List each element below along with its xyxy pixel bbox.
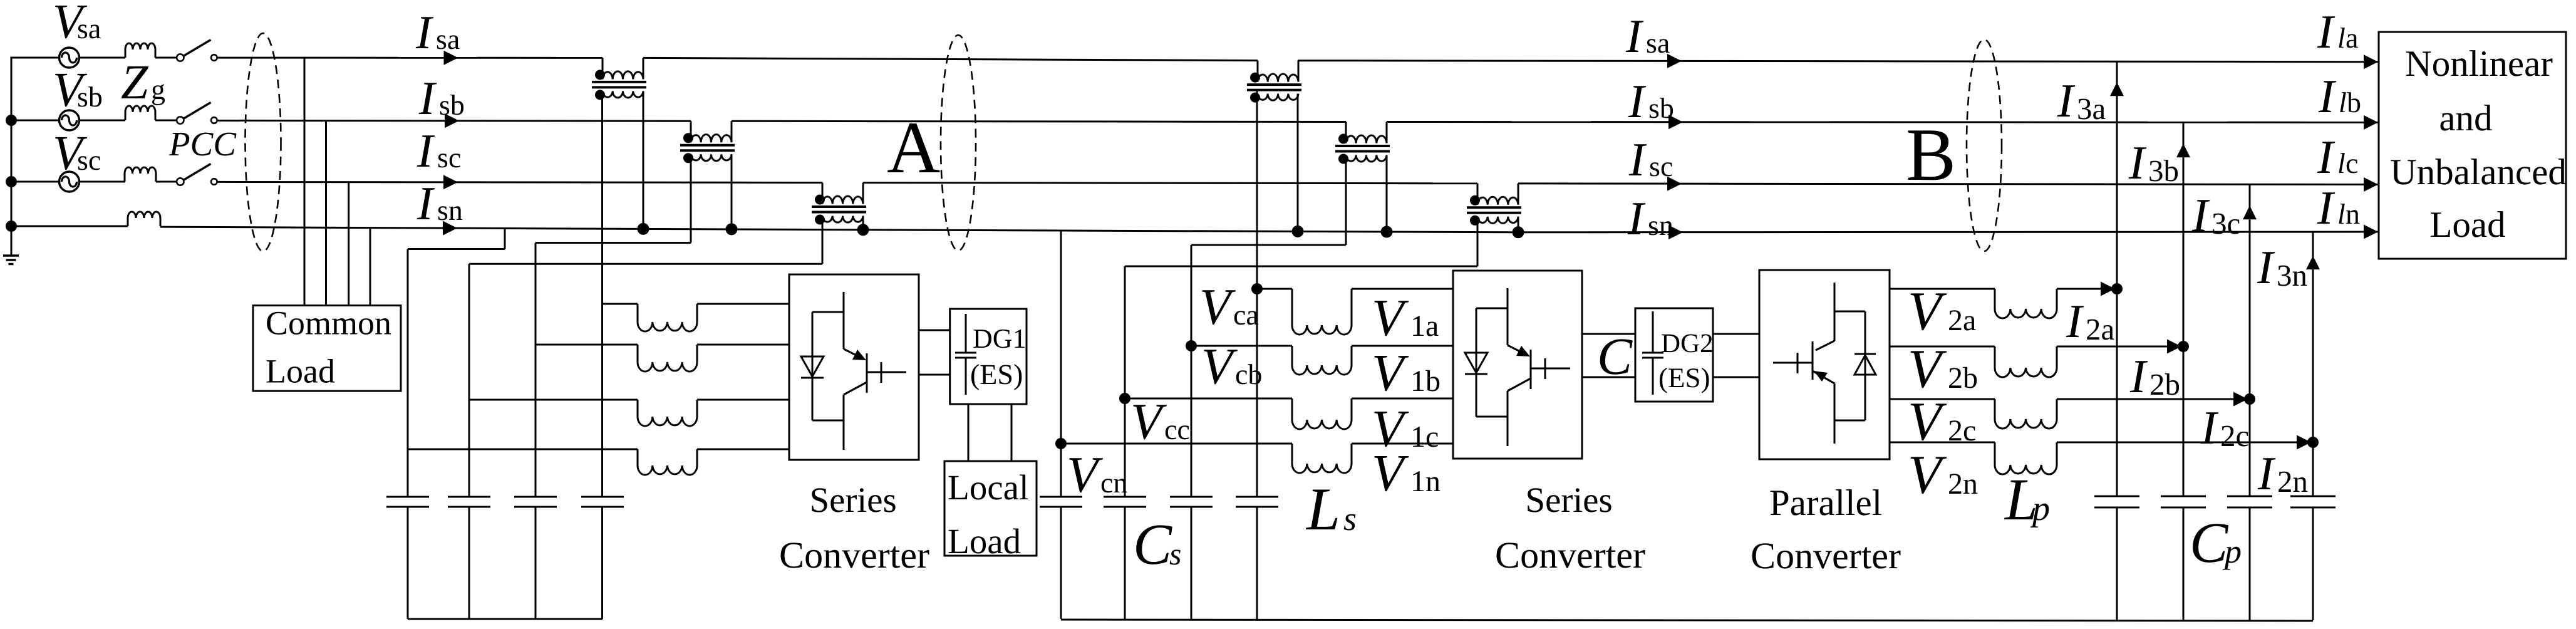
inductor filter-n	[638, 449, 697, 475]
label Isb 2	[1628, 86, 1673, 118]
wire filter neutral to inductor	[408, 449, 638, 450]
wire DG2 to parallel converter -	[1713, 377, 1759, 378]
label I3b	[2129, 147, 2178, 181]
wire filter bottom rail	[408, 618, 603, 620]
wire phase-c to load	[1518, 184, 2378, 185]
wire T2b secondary-right to neutral	[1386, 155, 1388, 232]
label Series Converter 1	[781, 488, 929, 568]
wire filter phase-b to inductor	[535, 344, 638, 346]
label I2b	[2130, 361, 2179, 395]
inductor Lp-n	[1995, 442, 2057, 474]
label I2a	[2066, 306, 2114, 340]
wire DG1 to Local Load left	[968, 404, 970, 461]
label V2n	[1911, 457, 1978, 494]
wire series-conv2 output- to DG2	[1582, 377, 1635, 378]
inductor Lp-b	[1995, 346, 2057, 377]
label Cp	[2193, 524, 2240, 569]
wire I3c vertical	[2249, 184, 2251, 620]
label Ls	[1306, 490, 1356, 531]
arrow I3b	[2176, 143, 2190, 157]
node T2c-neutral junction	[1513, 226, 1524, 238]
transformer T2a	[1247, 61, 1301, 103]
inductor Zg neutral	[128, 212, 160, 226]
label V1a	[1374, 301, 1438, 336]
node Vcb junction	[1186, 340, 1197, 351]
wire DG2 to parallel converter +	[1713, 333, 1759, 335]
wire phase-a to switch	[155, 57, 177, 59]
wire I3n vertical	[2312, 232, 2314, 620]
wire T2c secondary-left step	[1125, 217, 1477, 266]
wire Lp-c to node	[2057, 398, 2235, 400]
node I2c junction	[2244, 393, 2255, 405]
label Lp	[2004, 481, 2049, 528]
wire main bottom rail	[1061, 620, 2313, 621]
label V2c	[1911, 403, 1975, 440]
switch phase-c	[177, 164, 217, 185]
node Vcn junction	[1055, 438, 1067, 449]
label Ila	[2317, 16, 2358, 48]
wire Ls-a to series converter 2	[1352, 288, 1453, 290]
label Isa 2	[1626, 21, 1670, 53]
wire T1c secondary-right to neutral	[862, 216, 864, 230]
label Vsc	[55, 137, 100, 170]
label V2a	[1911, 293, 1976, 330]
inductor filter-c	[638, 400, 697, 426]
arrow I2c	[2233, 392, 2248, 407]
label I2n	[2258, 458, 2308, 492]
arrow Isa	[444, 51, 458, 65]
wire T1a secondary-right to neutral	[643, 91, 644, 229]
inductor Ls-c	[1292, 398, 1352, 429]
label Ilc	[2317, 142, 2357, 173]
inductor Ls-n	[1292, 444, 1352, 473]
node left-bus phase-c junction	[6, 176, 17, 187]
node T2b-neutral junction	[1381, 226, 1393, 238]
node T1a-neutral junction	[638, 223, 649, 235]
label Isn	[417, 188, 463, 220]
wire filter phase-a to inductor	[603, 303, 638, 305]
inductor Lp-a	[1995, 289, 2057, 318]
IGBT+diode series converter 1	[801, 292, 906, 450]
inductor Zg phase-b	[125, 106, 155, 120]
label Series Converter 2	[1497, 488, 1645, 568]
capacitor Cp-a	[2094, 496, 2139, 507]
parallel converter box	[1759, 270, 1890, 459]
wire tap neutral to Common Load	[370, 228, 371, 306]
ground	[3, 226, 19, 264]
wire neutral to load	[1518, 231, 2378, 234]
wire inductor-c to series converter	[697, 399, 789, 401]
wire Vcb vertical	[1191, 245, 1192, 619]
arrow Isn 2	[1668, 225, 1683, 239]
label I3n	[2257, 252, 2307, 286]
wire inductor-b to series converter	[697, 344, 789, 346]
wire phase-a left vertical bus to source	[11, 58, 59, 227]
node T1c-neutral junction	[857, 224, 869, 236]
label B	[1908, 130, 1953, 180]
label DG2	[1662, 335, 1712, 353]
arrow I2b	[2167, 340, 2181, 354]
label I3a	[2057, 85, 2106, 119]
capacitor filter-n	[386, 497, 429, 507]
wire Vca to Ls	[1257, 288, 1292, 290]
wire phase-b between transformers	[732, 121, 1346, 122]
wire series-conv1 output+ to DG1	[919, 330, 950, 331]
wire T1b secondary-right to neutral	[731, 154, 733, 229]
switch phase-b	[177, 103, 217, 124]
label Vcc	[1133, 405, 1189, 439]
wire Ls-c to series converter 2	[1352, 398, 1453, 400]
AC source Vsc	[59, 172, 80, 192]
wire neutral middle segment	[1061, 231, 1518, 232]
wire phase-b after switch	[217, 120, 691, 122]
wire neutral left segment	[11, 226, 128, 227]
label DG2 ES	[1660, 368, 1709, 393]
series converter 2 box	[1453, 271, 1582, 459]
wire inductor-n to series converter	[697, 449, 789, 450]
arrow I2n	[2297, 435, 2311, 450]
label Isc 2	[1629, 144, 1672, 176]
wire Ls-b to series converter 2	[1352, 345, 1453, 347]
arrow I3n	[2306, 256, 2320, 269]
inductor filter-b	[638, 345, 697, 372]
capacitor Cp-b	[2161, 496, 2206, 507]
wire Vcb to Ls	[1191, 345, 1292, 347]
label Iln	[2317, 192, 2360, 224]
arrow Ila	[2364, 55, 2378, 69]
label Vsb	[55, 74, 101, 107]
label Local Load	[949, 475, 1028, 554]
wire Lp-b to node	[2057, 346, 2168, 348]
node Vcc junction	[1119, 393, 1130, 404]
wire phase-a source to inductor	[80, 57, 126, 59]
wire neutral main segment	[160, 227, 1061, 231]
node I2n junction	[2307, 437, 2319, 448]
IGBT+diode series converter 2	[1465, 288, 1570, 446]
wire tap phase-b to Common Load	[325, 121, 327, 306]
label A	[887, 123, 939, 172]
label PCC	[169, 133, 237, 156]
wire DG1 to Local Load right	[1011, 404, 1013, 461]
wire tap phase-c to Common Load	[348, 182, 349, 306]
wire Ls-n to series converter 2	[1352, 443, 1453, 445]
arrow Isc	[443, 175, 458, 189]
capacitor Cp-c	[2227, 496, 2272, 507]
inductor Ls-a	[1292, 289, 1352, 335]
label DG1	[973, 330, 1025, 348]
wire T1b secondary-left step	[535, 154, 691, 619]
DG2 box	[1635, 308, 1713, 402]
arrow Isn	[443, 221, 457, 236]
label Vca	[1202, 290, 1258, 325]
AC source Vsb	[59, 110, 80, 130]
label Vsa	[55, 6, 101, 39]
label Ilb	[2319, 81, 2361, 112]
label Common Load	[267, 312, 391, 383]
arrow Isa 2	[1667, 54, 1682, 68]
label Vcb	[1204, 350, 1261, 384]
arrow Isb	[445, 113, 459, 128]
arrow Iln	[2364, 225, 2378, 239]
Local Load box	[944, 461, 1037, 556]
DG1 box	[950, 309, 1027, 404]
arrow Ilc	[2364, 177, 2378, 192]
node I2a junction	[2111, 283, 2123, 294]
arrow Isb 2	[1668, 115, 1683, 129]
label Vcn	[1069, 458, 1127, 492]
wire phase-c to switch	[156, 181, 177, 183]
label I3c	[2192, 200, 2240, 234]
label V2b	[1911, 351, 1977, 388]
wire T1a secondary-left down	[601, 91, 603, 619]
wire Lp-n to node	[2057, 442, 2298, 444]
transformer T2b	[1335, 122, 1390, 164]
wire inductor-a to series converter	[697, 303, 789, 305]
label Zg	[122, 66, 165, 105]
capacitor Cs-b	[1170, 497, 1213, 507]
transformer T1a	[592, 58, 646, 100]
AC source Vsa	[59, 48, 80, 68]
capacitor Cs-a	[1236, 497, 1278, 507]
wire T2b secondary-left step	[1191, 155, 1346, 246]
wire T2c secondary-right to neutral	[1518, 217, 1519, 232]
label Parallel Converter	[1752, 489, 1901, 569]
label Isc	[417, 135, 460, 167]
node left-bus phase-b junction	[6, 115, 17, 126]
label I2c	[2201, 412, 2248, 446]
wire I3b vertical	[2183, 122, 2185, 620]
transformer T1c	[812, 183, 866, 225]
label Isn 2	[1628, 203, 1673, 235]
wire phase-a to load	[1298, 61, 2378, 62]
wire phase-a after switch	[217, 57, 603, 59]
label C	[1600, 339, 1633, 374]
wire phase-b to switch	[155, 120, 177, 122]
wire phase-b source segments	[11, 120, 126, 122]
inductor Zg phase-a	[125, 43, 155, 58]
label Nonlinear and Unbalanced Load	[2391, 50, 2566, 237]
transformer T2c	[1467, 184, 1521, 226]
wire neutral tap step to filter	[408, 229, 505, 620]
node I2b junction	[2178, 341, 2189, 352]
label V1c	[1374, 412, 1437, 447]
label Isb	[419, 83, 463, 115]
switch phase-a	[177, 40, 217, 61]
inductor Lp-c	[1995, 399, 2057, 429]
inductor filter-a	[638, 304, 697, 331]
wire parallel-conv output a to Lp	[1890, 288, 1995, 290]
series converter 1 box	[789, 274, 919, 460]
wire parallel-conv output n to Lp	[1890, 442, 1995, 444]
section B ellipse (dashed)	[1967, 39, 2002, 251]
Common Load box	[253, 306, 401, 391]
wire Vcc vertical	[1124, 266, 1126, 619]
wire tap phase-a to Common Load	[304, 58, 306, 305]
PCC measurement ellipse (dashed)	[246, 33, 281, 251]
node T2a-neutral junction	[1292, 226, 1304, 237]
wire phase-c source segments	[11, 181, 126, 183]
wire parallel-conv output b to Lp	[1890, 346, 1995, 348]
label Cs	[1136, 525, 1181, 564]
wire Vcn vertical from neutral	[1060, 231, 1062, 619]
label V1n	[1374, 456, 1440, 491]
label V1b	[1374, 356, 1439, 392]
battery DG1 energy storage	[955, 314, 976, 395]
wire T1c secondary-left step	[469, 216, 822, 620]
section A ellipse (dashed)	[941, 35, 976, 251]
inductor Ls-b	[1292, 346, 1352, 375]
capacitor Cp-n	[2290, 496, 2335, 507]
inductor Zg phase-c	[125, 167, 156, 182]
capacitor Cs-c	[1104, 497, 1146, 507]
wire parallel-conv output c to Lp	[1890, 398, 1995, 400]
transformer T1b	[680, 121, 735, 163]
wire I3a vertical	[2116, 61, 2118, 620]
wire filter phase-c to inductor	[469, 399, 638, 401]
node Vca junction	[1251, 283, 1263, 294]
capacitor filter-c	[448, 497, 490, 507]
wire phase-a between transformers	[643, 58, 1258, 60]
node T1b-neutral junction	[726, 223, 738, 235]
arrow I2a	[2101, 282, 2115, 296]
Nonlinear and Unbalanced Load box	[2379, 32, 2566, 259]
IGBT+diode parallel converter	[1773, 283, 1876, 444]
wire Lp-a to node	[2057, 288, 2102, 290]
battery DG2 energy storage	[1642, 311, 1663, 395]
arrow I3c	[2243, 205, 2257, 219]
node left-bus neutral junction	[6, 221, 17, 232]
capacitor filter-b	[514, 497, 557, 507]
wire Vcc to Ls	[1125, 398, 1292, 400]
wire T2a secondary-right to neutral	[1297, 94, 1299, 232]
arrow Ilb	[2364, 115, 2378, 130]
wire Vcn to Ls	[1061, 443, 1292, 445]
arrow Isc 2	[1667, 177, 1682, 191]
wire phase-b to load	[1387, 121, 2378, 123]
label Isa	[416, 17, 460, 49]
wire phase-c between transformers	[863, 183, 1477, 184]
wire Vca vertical (T2a secondary-left)	[1256, 91, 1258, 619]
label DG1 ES	[971, 364, 1022, 390]
wire phase-c after switch	[217, 182, 823, 182]
capacitor filter-a	[581, 497, 624, 507]
wire series-conv2 output+ to DG2	[1582, 333, 1635, 335]
wire series-conv1 output- to DG1	[919, 374, 950, 376]
capacitor Cs-n	[1040, 497, 1082, 507]
arrow I3a	[2110, 82, 2124, 96]
